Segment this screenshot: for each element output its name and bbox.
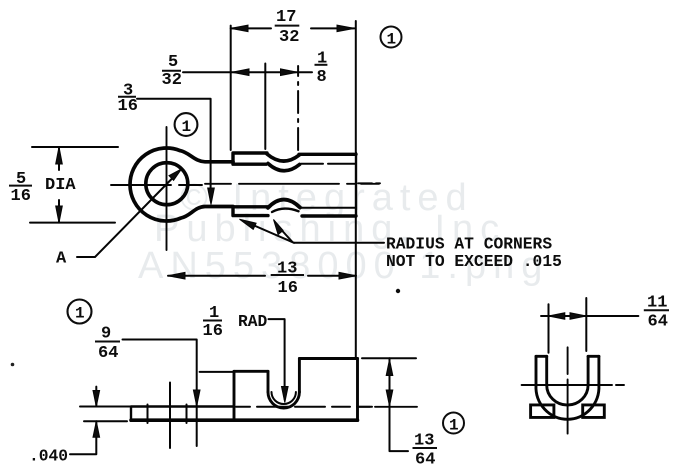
13/64 arrow down: [386, 390, 393, 406]
barrel bottom inner line right section: [301, 207, 356, 209]
arrow 5/32 left: [232, 69, 249, 76]
fraction 5/16 with DIA: [9, 170, 76, 206]
svg-text:17: 17: [276, 8, 296, 27]
11/64 arrow right: [570, 313, 586, 320]
5/16 DIA dimension arrows: [58, 147, 60, 223]
arrow 13/16 left: [168, 272, 185, 279]
right flange box: [583, 405, 605, 418]
11/64 extension lines: [549, 298, 587, 353]
extension of dashed line to right: [359, 406, 417, 408]
leader A: [77, 175, 176, 258]
ring terminal hole (inner circle): [146, 163, 188, 205]
U-notch left wall: [267, 371, 270, 392]
svg-text:RADIUS AT CORNERS: RADIUS AT CORNERS: [386, 235, 552, 254]
radius note leader horizontal: [294, 242, 384, 244]
dimension line 17/32: [231, 27, 355, 29]
fraction 13/64: [413, 432, 438, 470]
barrel top-left cap box: [233, 153, 267, 164]
barrel horizontal centerline: [205, 183, 379, 185]
5/16 DIA extension lines: [30, 147, 118, 223]
leader 3/16: [137, 99, 211, 200]
ring terminal outer outline (plan view): [130, 148, 233, 221]
hidden hole line left: [147, 405, 149, 424]
hidden hole line right: [186, 405, 188, 424]
fraction 13/16: [271, 260, 304, 299]
barrel bottom-left cap box: [233, 207, 268, 216]
barrel top dimple inner arc: [268, 164, 300, 171]
U-notch right wall: [298, 359, 301, 393]
svg-text:A: A: [56, 250, 67, 269]
svg-text:NOT TO EXCEED .015: NOT TO EXCEED .015: [386, 252, 562, 271]
strip bottom edge (heavy): [131, 418, 358, 422]
svg-text:DIA: DIA: [45, 176, 76, 195]
svg-text:1: 1: [449, 417, 459, 435]
barrel bottom dimple outer arc: [268, 200, 300, 208]
11/64 dimension line: [541, 315, 638, 317]
arrow 1/8 right: [281, 69, 298, 76]
dimension line 5/32 and 1/8: [183, 71, 312, 73]
radius note branch2 arrow: [274, 220, 284, 235]
svg-text:64: 64: [98, 344, 118, 363]
svg-text:16: 16: [278, 279, 298, 298]
arrow 17/32 right: [337, 25, 355, 32]
ring centerline in side view: [169, 383, 171, 449]
U-notch inner arc: [272, 392, 296, 404]
barrel top inner line right section: [301, 163, 355, 165]
U inner arc: [547, 385, 588, 405]
radius note text: [386, 235, 562, 272]
barrel bottom edge right section: [302, 214, 356, 217]
right wall inner: [587, 356, 590, 385]
svg-text:1: 1: [75, 305, 85, 323]
strip outline: [131, 407, 234, 421]
dimension line 13/16: [168, 275, 356, 277]
left wall top cap: [536, 355, 547, 358]
barrel right end: [355, 153, 357, 216]
fraction 1/8: [315, 50, 328, 88]
circled 1 bottom middle: [443, 413, 464, 435]
arrow 3/16 down: [208, 188, 215, 205]
U-notch outer arc: [268, 392, 299, 408]
right wall top cap: [588, 355, 599, 358]
svg-text:16: 16: [203, 322, 223, 341]
right wall outer: [597, 356, 600, 385]
svg-text:1: 1: [387, 31, 397, 49]
fraction 9/64: [95, 325, 120, 364]
raised right top edge: [299, 357, 357, 360]
step vertical: [233, 371, 236, 419]
fraction 5/32: [162, 53, 182, 90]
barrel top dimple outer arc: [267, 154, 299, 161]
RAD leader: [269, 319, 285, 399]
small speck 2: [11, 363, 15, 367]
13/64 arrow up: [386, 360, 393, 376]
svg-text:5: 5: [168, 53, 178, 72]
extension line at x=230.7 (17/32 left): [230, 26, 232, 150]
radius note branch1 arrow: [240, 219, 257, 229]
raised left top edge: [234, 370, 268, 373]
svg-text:8: 8: [317, 68, 327, 87]
13/64 dimension vertical: [390, 358, 409, 451]
long extension line at x=356 (17/32 right, 13/16 right, projection): [355, 21, 357, 357]
arrow A: [169, 169, 182, 180]
end view horizontal centerline: [522, 384, 624, 386]
RAD arrow down: [282, 387, 289, 403]
svg-text:16: 16: [118, 97, 138, 116]
svg-text:32: 32: [279, 28, 299, 47]
right end vertical of side view: [356, 359, 359, 421]
13/64 extension line top: [362, 357, 416, 359]
svg-text:1: 1: [182, 118, 192, 136]
barrel bottom dimple inner arc: [272, 209, 299, 212]
barrel top edge right section: [299, 153, 356, 156]
ring horizontal centerline: [111, 184, 202, 186]
svg-text:RAD: RAD: [238, 312, 268, 331]
fraction 17/32: [275, 8, 300, 47]
small speck: [396, 289, 400, 293]
left wall outer: [535, 356, 538, 385]
circled 1 top left: [175, 113, 198, 136]
9/64 leader: [123, 340, 197, 447]
11/64 arrow left: [549, 313, 565, 320]
ring vertical centerline: [166, 127, 168, 250]
svg-text:16: 16: [11, 187, 31, 206]
fraction 11/64: [644, 294, 669, 332]
fraction 3/16: [118, 82, 138, 117]
svg-text:.040: .040: [29, 447, 68, 466]
dimple centerline x=298.1 (dash-dot): [297, 66, 299, 150]
circled 1 bottom left: [68, 300, 92, 324]
radius note leader branch 2: [276, 224, 292, 242]
9/64 arrow down: [193, 390, 200, 406]
svg-text:64: 64: [648, 313, 668, 332]
svg-text:32: 32: [162, 71, 182, 90]
arrow 17/32 left: [231, 25, 248, 32]
centerline extension past barrel end: [358, 182, 380, 184]
left wall inner: [545, 356, 548, 385]
svg-text:64: 64: [415, 451, 435, 470]
circled 1 top right: [381, 27, 402, 49]
radius note leader branch 1: [245, 222, 294, 243]
.040 dimension arrows: [70, 387, 96, 455]
U outer arc: [536, 385, 599, 419]
left flange box: [531, 405, 554, 418]
extension line x=265.3: [264, 64, 266, 150]
extension of raised-top to left: [200, 371, 234, 373]
arrow 13/16 right: [339, 272, 356, 279]
fraction 1/16: [203, 304, 223, 341]
hidden dashed line through raised section: [236, 406, 372, 408]
.040 extension lines: [80, 407, 131, 422]
end view vertical centerline: [567, 347, 569, 433]
